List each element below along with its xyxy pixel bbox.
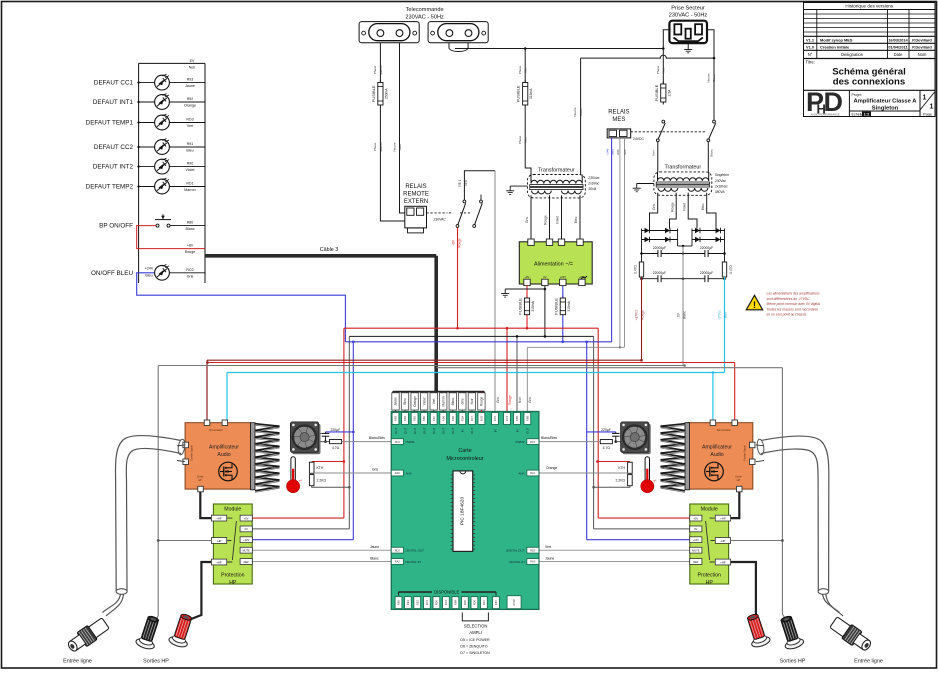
svg-text:RC0: RC0 — [186, 268, 193, 272]
svg-text:Noir: Noir — [652, 150, 656, 156]
svg-text:Transformateur: Transformateur — [538, 167, 575, 173]
svg-text:+24V: +24V — [606, 149, 610, 156]
svg-text:Protection: Protection — [698, 572, 721, 578]
svg-text:RA1: RA1 — [530, 471, 536, 475]
svg-text:ANA: ANA — [518, 471, 524, 475]
svg-text:DEFAUT CC1: DEFAUT CC1 — [94, 80, 134, 87]
svg-text:-HP: -HP — [720, 539, 725, 543]
svg-text:Violet: Violet — [186, 168, 195, 172]
svg-text:AMPLI: AMPLI — [469, 630, 482, 635]
svg-text:Marron: Marron — [379, 142, 383, 152]
svg-text:HP: HP — [198, 478, 202, 482]
svg-text:Gris: Gris — [496, 397, 500, 403]
svg-text:380VA: 380VA — [715, 190, 726, 194]
svg-text:RD3: RD3 — [530, 548, 536, 552]
svg-text:Module: Module — [701, 507, 718, 513]
svg-text:230Vac: 230Vac — [714, 179, 727, 183]
svg-text:Bleu: Bleu — [574, 217, 578, 224]
svg-text:+24V: +24V — [579, 275, 585, 279]
svg-text:RD2: RD2 — [395, 548, 401, 552]
svg-text:0.47Ω: 0.47Ω — [633, 265, 637, 274]
svg-text:Gris: Gris — [187, 274, 194, 278]
svg-text:0V: 0V — [543, 275, 546, 279]
svg-text:RC7: RC7 — [470, 415, 474, 421]
svg-text:Gris: Gris — [528, 397, 532, 403]
svg-text:Transformateur: Transformateur — [664, 165, 701, 171]
svg-text:RA0: RA0 — [395, 471, 401, 475]
svg-text:250mA: 250mA — [384, 88, 388, 99]
svg-text:RE 1: RE 1 — [458, 179, 462, 186]
svg-text:DIGITAL OUT: DIGITAL OUT — [406, 549, 425, 553]
svg-text:Neutre: Neutre — [393, 142, 397, 151]
svg-text:Noir: Noir — [518, 396, 522, 403]
svg-text:24VDC: 24VDC — [633, 137, 644, 141]
svg-text:FUSIBLE: FUSIBLE — [654, 84, 659, 101]
svg-text:Rouge: Rouge — [185, 250, 196, 254]
svg-text:Modif synop MES: Modif synop MES — [820, 37, 853, 42]
svg-text:2.5A: 2.5A — [667, 89, 671, 97]
svg-text:Phase: Phase — [373, 65, 377, 74]
svg-text:4.7Ω: 4.7Ω — [332, 446, 340, 450]
svg-text:Entrée Signal: Entrée Signal — [190, 445, 194, 461]
svg-text:RD4: RD4 — [460, 415, 464, 421]
svg-text:BP ON/OFF: BP ON/OFF — [99, 223, 133, 230]
svg-text:RD6: RD6 — [441, 415, 445, 421]
svg-text:Phase: Phase — [656, 65, 660, 74]
svg-text:OUT: OUT — [403, 427, 407, 434]
svg-text:Amplificateur: Amplificateur — [702, 445, 732, 451]
svg-text:Module: Module — [224, 507, 241, 513]
svg-text:Amplificateur: Amplificateur — [209, 445, 239, 451]
svg-text:Noir: Noir — [189, 66, 196, 70]
svg-text:IN: IN — [461, 429, 465, 432]
svg-text:Blanc/Bleu: Blanc/Bleu — [369, 436, 385, 440]
svg-text:D5 = ICE POWER: D5 = ICE POWER — [460, 638, 490, 642]
svg-text:Gris: Gris — [652, 204, 656, 210]
svg-text:RD5: RD5 — [451, 415, 455, 421]
svg-text:Bleu: Bleu — [145, 273, 152, 277]
svg-text:16/03/2014: 16/03/2014 — [888, 37, 908, 42]
svg-text:Les alimentations des amplific: Les alimentations des amplificateurs — [767, 292, 820, 296]
svg-text:RB7: RB7 — [494, 600, 498, 606]
svg-text:Projet:: Projet: — [852, 93, 862, 97]
svg-text:Alimentation: Alimentation — [209, 428, 224, 432]
svg-text:RD6: RD6 — [473, 599, 477, 605]
svg-text:Blanc: Blanc — [712, 74, 716, 82]
svg-text:DEFAUT TEMP2: DEFAUT TEMP2 — [86, 184, 134, 191]
svg-text:Telecommande: Telecommande — [406, 7, 444, 13]
svg-text:DIGITAL IN: DIGITAL IN — [509, 560, 524, 564]
svg-text:Marron: Marron — [441, 396, 445, 406]
svg-text:Bleu: Bleu — [611, 149, 615, 155]
svg-text:OUT: OUT — [422, 427, 426, 434]
svg-text:Phase: Phase — [373, 142, 377, 151]
svg-text:RB5: RB5 — [515, 415, 519, 421]
svg-text:DEFAUT INT2: DEFAUT INT2 — [93, 164, 134, 171]
svg-text:Violet: Violet — [422, 397, 426, 405]
svg-text:Rouge: Rouge — [508, 395, 512, 405]
svg-text:DEFAUT CC2: DEFAUT CC2 — [94, 144, 134, 151]
svg-text:Jaune: Jaune — [185, 84, 195, 88]
svg-text:Noir: Noir — [662, 67, 666, 73]
svg-text:Sortie: Sortie — [735, 475, 742, 479]
svg-text:RD0: RD0 — [435, 599, 439, 605]
svg-text:Rouge: Rouge — [458, 238, 462, 248]
svg-text:Carte: Carte — [458, 448, 471, 454]
svg-text:2x18Vac: 2x18Vac — [714, 184, 728, 188]
svg-text:-17Vcc: -17Vcc — [718, 310, 722, 320]
svg-text:230VAC - 50Hz: 230VAC - 50Hz — [669, 13, 708, 19]
svg-text:Jaune: Jaune — [545, 556, 554, 560]
svg-text:OUT: OUT — [451, 427, 455, 434]
svg-text:22000µF: 22000µF — [653, 246, 666, 250]
svg-text:DEF: DEF — [244, 560, 250, 564]
svg-text:ICSP: ICSP — [512, 599, 516, 606]
svg-text:1: 1 — [930, 104, 934, 111]
svg-text:Noir: Noir — [470, 398, 474, 405]
svg-text:D7 = SINGLETON: D7 = SINGLETON — [460, 651, 490, 655]
svg-text:!: ! — [753, 300, 756, 310]
svg-text:RC6: RC6 — [480, 415, 484, 421]
svg-text:RC4: RC4 — [505, 415, 509, 421]
svg-text:ON/OFF BLEU: ON/OFF BLEU — [91, 270, 133, 277]
svg-text:V1.0: V1.0 — [806, 44, 814, 49]
svg-text:Même point commun avec 0V digi: Même point commun avec 0V digital. — [767, 302, 821, 306]
svg-text:Noir: Noir — [523, 67, 527, 73]
svg-text:230VAC: 230VAC — [434, 218, 447, 222]
svg-text:DEFAUT TEMP1: DEFAUT TEMP1 — [86, 120, 134, 127]
svg-text:RC3: RC3 — [425, 599, 429, 605]
svg-text:Entrée Signal: Entrée Signal — [742, 445, 746, 461]
svg-text:1: 1 — [923, 95, 927, 102]
svg-text:D6 = ZENQUITO: D6 = ZENQUITO — [460, 645, 487, 649]
svg-text:sont différenciées au -17VDC.: sont différenciées au -17VDC. — [767, 297, 811, 301]
svg-text:+12V: +12V — [693, 538, 699, 542]
svg-text:Blanc: Blanc — [682, 311, 686, 319]
svg-text:Designation: Designation — [841, 52, 864, 57]
svg-text:+HP: +HP — [720, 560, 726, 564]
svg-text:Alimentation ~/=: Alimentation ~/= — [534, 262, 573, 268]
svg-text:Nom: Nom — [918, 52, 927, 57]
svg-text:Violet: Violet — [682, 203, 686, 211]
svg-text:RC2: RC2 — [395, 440, 401, 444]
svg-text:MUTE: MUTE — [243, 549, 251, 553]
svg-text:DISPONIBLE: DISPONIBLE — [434, 590, 459, 595]
svg-text:Neutre: Neutre — [707, 73, 711, 82]
svg-text:Entrée ligne: Entrée ligne — [63, 659, 92, 665]
svg-text:Bleu: Bleu — [403, 398, 407, 405]
svg-text:Date: Date — [894, 52, 904, 57]
svg-text:ANA: ANA — [406, 471, 412, 475]
svg-text:RC1: RC1 — [530, 440, 536, 444]
svg-text:RB0: RB0 — [422, 415, 426, 421]
svg-text:RB4: RB4 — [454, 600, 458, 606]
svg-text:RELAIS: RELAIS — [608, 110, 629, 116]
svg-text:OUT: OUT — [470, 427, 474, 434]
svg-text:+HP: +HP — [720, 516, 726, 520]
svg-text:Blanc/Bleu: Blanc/Bleu — [541, 436, 557, 440]
svg-text:RE0: RE0 — [397, 600, 401, 606]
svg-text:4.7Ω: 4.7Ω — [603, 446, 611, 450]
svg-text:R80: R80 — [187, 221, 194, 225]
svg-text:Rouge: Rouge — [544, 215, 548, 225]
svg-text:Titre:: Titre: — [806, 60, 815, 65]
svg-text:Gris: Gris — [372, 468, 379, 472]
svg-text:Violet: Violet — [556, 216, 560, 224]
svg-text:2x9Vac: 2x9Vac — [587, 181, 599, 185]
svg-text:Jaune: Jaune — [370, 545, 379, 549]
svg-text:KTH: KTH — [317, 466, 324, 470]
svg-text:RB1: RB1 — [413, 415, 417, 421]
svg-text:OUT: OUT — [442, 427, 446, 434]
svg-text:230Vac: 230Vac — [587, 176, 600, 180]
svg-text:Création initiale: Création initiale — [820, 44, 850, 49]
svg-text:RELAIS: RELAIS — [405, 184, 426, 190]
svg-text:RD1: RD1 — [186, 182, 193, 186]
svg-text:0V: 0V — [245, 527, 248, 531]
svg-text:22000µF: 22000µF — [700, 246, 713, 250]
svg-text:Vert: Vert — [432, 398, 436, 404]
svg-text:Bleu: Bleu — [186, 149, 193, 153]
svg-text:+HP: +HP — [216, 560, 222, 564]
svg-text:DIGITAL OUT: DIGITAL OUT — [506, 549, 525, 553]
svg-text:315mA: 315mA — [531, 300, 535, 311]
svg-text:Alimentation: Alimentation — [717, 428, 732, 432]
svg-text:RB6: RB6 — [525, 415, 529, 421]
svg-text:30VA: 30VA — [588, 187, 597, 191]
svg-text:OUT: OUT — [432, 427, 436, 434]
svg-text:Entrée ligne: Entrée ligne — [854, 659, 883, 665]
svg-text:PWM1: PWM1 — [406, 440, 415, 444]
svg-text:EV: EV — [190, 59, 195, 63]
svg-text:Gris: Gris — [464, 180, 468, 186]
svg-text:1:2: 1:2 — [864, 111, 871, 116]
svg-text:Blanc: Blanc — [710, 149, 714, 157]
svg-text:Noir: Noir — [523, 137, 527, 143]
svg-text:DEFAUT INT1: DEFAUT INT1 — [93, 99, 134, 106]
svg-text:220µF: 220µF — [331, 428, 341, 432]
svg-text:EXTERN: EXTERN — [404, 199, 428, 205]
svg-text:Vert: Vert — [187, 124, 193, 128]
svg-text:Blanc: Blanc — [186, 227, 195, 231]
svg-text:RD1: RD1 — [444, 599, 448, 605]
svg-text:V1.1: V1.1 — [806, 37, 815, 42]
svg-text:IN: IN — [493, 429, 497, 432]
svg-text:OUT: OUT — [413, 427, 417, 434]
svg-text:RD5: RD5 — [463, 599, 467, 605]
svg-text:RE1: RE1 — [406, 600, 410, 606]
svg-text:DIGITAL IN: DIGITAL IN — [406, 560, 421, 564]
svg-text:0V: 0V — [694, 527, 697, 531]
svg-text:FUSIBLE: FUSIBLE — [553, 298, 558, 315]
svg-text:Historique des versions: Historique des versions — [845, 4, 893, 9]
svg-text:Microcontroleur: Microcontroleur — [446, 456, 483, 462]
svg-text:+24V: +24V — [560, 275, 566, 279]
svg-text:Singleton: Singleton — [715, 173, 729, 177]
svg-text:22000µF: 22000µF — [653, 271, 666, 275]
svg-text:315mA: 315mA — [529, 88, 533, 99]
svg-text:RB2: RB2 — [403, 415, 407, 421]
svg-text:01/04/2011: 01/04/2011 — [888, 44, 908, 49]
svg-text:Amplificateur Classe A: Amplificateur Classe A — [854, 99, 918, 105]
svg-text:PIC 18F4620: PIC 18F4620 — [459, 497, 465, 526]
svg-text:Phase: Phase — [518, 135, 522, 144]
svg-text:Toutes les masses sont raccord: Toutes les masses sont raccordées — [767, 307, 819, 311]
svg-text:Prise Secteur: Prise Secteur — [671, 5, 705, 11]
svg-text:Neutre: Neutre — [573, 107, 577, 116]
svg-text:22000µF: 22000µF — [700, 271, 713, 275]
svg-text:Rouge: Rouge — [641, 310, 645, 320]
svg-text:RD7: RD7 — [482, 599, 486, 605]
svg-text:des connexions: des connexions — [833, 77, 906, 88]
svg-text:Phase: Phase — [518, 65, 522, 74]
svg-text:Page: Page — [923, 112, 932, 116]
svg-text:Marron: Marron — [379, 65, 383, 75]
svg-text:DEF: DEF — [693, 560, 699, 564]
svg-text:FUSIBLE: FUSIBLE — [516, 85, 521, 102]
svg-text:RC5: RC5 — [493, 415, 497, 421]
svg-text:HP: HP — [706, 580, 714, 586]
svg-text:2.2KΩ: 2.2KΩ — [317, 478, 327, 482]
svg-text:+17Vcc: +17Vcc — [635, 309, 639, 320]
svg-text:Orange: Orange — [184, 104, 196, 108]
svg-text:N°: N° — [808, 52, 813, 57]
svg-text:RD3: RD3 — [186, 118, 193, 122]
svg-text:Câble 3: Câble 3 — [320, 247, 339, 253]
svg-text:Blanc: Blanc — [370, 556, 379, 560]
svg-text:R92: R92 — [187, 97, 194, 101]
svg-text:Jaune: Jaune — [394, 397, 398, 406]
svg-text:OUT: OUT — [526, 427, 530, 434]
svg-text:RB3: RB3 — [394, 415, 398, 421]
svg-text:+12V: +12V — [243, 538, 249, 542]
svg-text:P.Devillard: P.Devillard — [912, 37, 932, 42]
svg-text:Gris: Gris — [623, 149, 627, 155]
svg-text:+5V: +5V — [693, 516, 698, 520]
svg-text:FUSIBLE: FUSIBLE — [518, 298, 523, 315]
svg-text:Audio: Audio — [217, 452, 230, 458]
svg-text:315mA: 315mA — [567, 300, 571, 311]
svg-text:RA3: RA3 — [530, 560, 536, 564]
svg-text:+8V: +8V — [452, 239, 456, 246]
svg-text:Bleu: Bleu — [701, 204, 705, 211]
svg-text:Protection: Protection — [221, 572, 244, 578]
svg-text:+5V: +5V — [244, 516, 249, 520]
svg-text:OUT: OUT — [394, 427, 398, 434]
svg-text:Gris: Gris — [525, 217, 529, 223]
svg-text:+HP: +HP — [216, 516, 222, 520]
svg-text:220µF: 220µF — [601, 428, 611, 432]
svg-text:MUTE: MUTE — [692, 549, 700, 553]
svg-text:Sorties HP: Sorties HP — [780, 659, 806, 665]
svg-text:2.2KΩ: 2.2KΩ — [615, 478, 625, 482]
svg-text:230VAC - 50Hz: 230VAC - 50Hz — [405, 14, 444, 20]
svg-text:P.Devillard: P.Devillard — [912, 44, 932, 49]
svg-text:FUSIBLE: FUSIBLE — [371, 85, 376, 102]
svg-text:SELECTION: SELECTION — [464, 623, 488, 628]
svg-text:Blanc: Blanc — [579, 108, 583, 116]
svg-text:0.47Ω: 0.47Ω — [729, 265, 733, 274]
svg-text:HP: HP — [229, 580, 237, 586]
svg-text:Sortie: Sortie — [197, 475, 204, 479]
svg-text:R86: R86 — [616, 149, 620, 155]
svg-text:PWM2: PWM2 — [516, 440, 525, 444]
svg-text:KTH: KTH — [618, 466, 625, 470]
svg-text:Orange: Orange — [546, 466, 557, 470]
svg-text:RA2: RA2 — [395, 560, 401, 564]
svg-text:Sorties HP: Sorties HP — [143, 659, 169, 665]
svg-text:RD7: RD7 — [432, 415, 436, 421]
svg-text:Gris: Gris — [461, 398, 465, 404]
svg-text:Rouge: Rouge — [480, 396, 484, 406]
svg-text:REMOTE: REMOTE — [403, 192, 429, 198]
svg-text:RE2: RE2 — [415, 600, 419, 606]
svg-text:Bleu: Bleu — [398, 144, 402, 150]
svg-text:+24V: +24V — [145, 267, 154, 271]
svg-text:Marron: Marron — [184, 188, 195, 192]
svg-text:Blanc: Blanc — [451, 397, 455, 405]
svg-text:-HP: -HP — [217, 539, 222, 543]
svg-text:R91: R91 — [187, 142, 194, 146]
svg-text:HP: HP — [737, 478, 741, 482]
svg-text:Orange: Orange — [413, 396, 417, 407]
svg-text:+8V: +8V — [187, 243, 194, 247]
svg-text:+8V: +8V — [525, 275, 530, 279]
svg-text:Audio: Audio — [710, 452, 723, 458]
svg-text:R93: R93 — [187, 78, 194, 82]
svg-text:Vert: Vert — [545, 545, 551, 549]
svg-text:Rouge: Rouge — [670, 202, 674, 212]
svg-text:AUDIO PERFORMANCE: AUDIO PERFORMANCE — [810, 112, 839, 116]
svg-text:MES: MES — [612, 117, 625, 123]
svg-text:IN: IN — [515, 429, 519, 432]
svg-text:Bleu: Bleu — [724, 312, 728, 319]
svg-text:R90: R90 — [187, 162, 194, 166]
svg-text:en un seul point au châssis.: en un seul point au châssis. — [767, 313, 808, 317]
